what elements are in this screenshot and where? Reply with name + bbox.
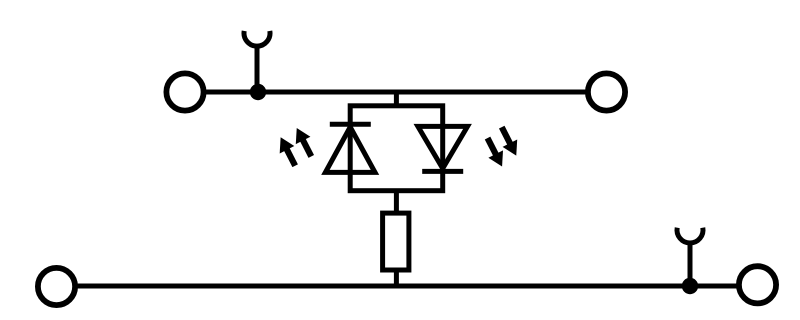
LED D2 triangle (anode, pointing down) [418,126,468,168]
wire top rail [204,90,588,95]
resistor R1 [383,213,409,270]
LED D2 emission arrow 2 [494,123,523,159]
test-point fork arc (top) [244,31,270,46]
LED D2 cathode bar [422,169,463,174]
junction dot (bottom rail) [682,278,698,294]
wire from resistor to bottom rail [394,270,399,288]
terminal circle X2 (top-right) [588,73,625,110]
LED D1 triangle (anode, pointing up) [325,127,375,172]
junction dot (top rail) [250,84,266,100]
terminal circle X4 (bottom-right) [739,266,776,303]
test-point stem (bottom) [688,242,693,286]
wire from top rail to LED block [394,92,399,107]
test-point stem (top) [255,45,260,92]
LED block box [350,106,443,191]
LED D1 cathode bar [330,122,371,127]
wire from LED block to resistor [394,190,399,214]
terminal circle X3 (bottom-left) [38,268,75,305]
terminal circle X1 (top-left) [166,73,203,110]
wire bottom rail [75,284,739,289]
LED D2 emission arrow 1 [480,134,509,170]
test-point fork arc (bottom) [677,228,703,243]
LED D1 emission arrow 2 [289,124,318,160]
LED D1 emission arrow 1 [273,134,302,170]
